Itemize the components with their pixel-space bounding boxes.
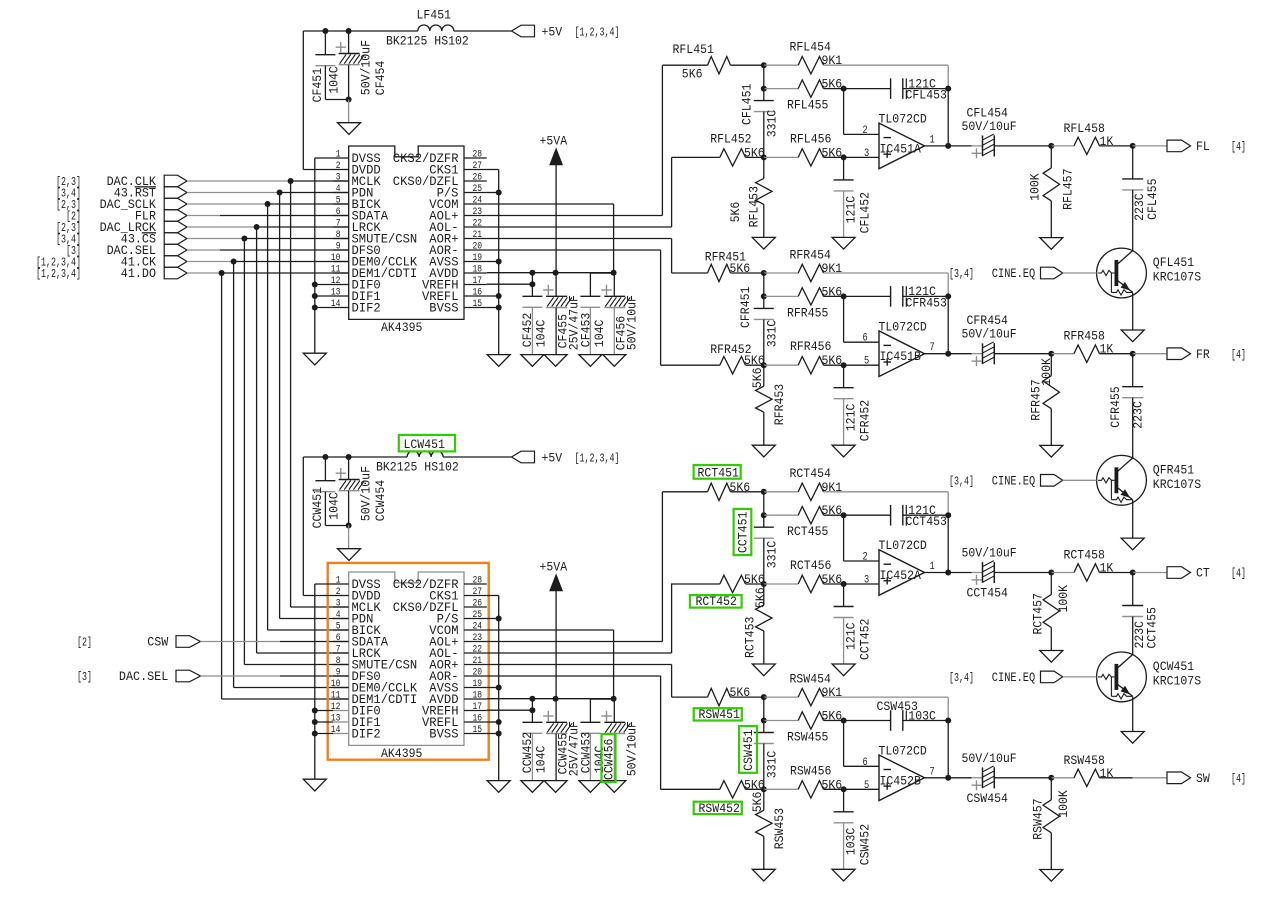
svg-text:BVSS: BVSS: [429, 728, 458, 742]
wire CF453 riser: [589, 273, 591, 296]
svg-text:19: 19: [473, 679, 483, 690]
ground RFR457: [1040, 445, 1063, 457]
ground AVSS bus: [487, 781, 510, 793]
wire DAC_LRCK: [187, 226, 257, 228]
wire: [764, 696, 798, 698]
resistor RSW455 5K6: [798, 712, 823, 729]
wire feedback to inverting input: [843, 89, 845, 135]
pin 19 stub IC bottom: [464, 687, 487, 689]
resistor RFL455 5K6: [798, 80, 823, 97]
svg-text:331C: 331C: [765, 541, 780, 569]
junction: [761, 786, 767, 792]
capacitor CFL453: [891, 78, 903, 99]
svg-text:5K6: 5K6: [730, 261, 751, 276]
resistor RFR454 9K1: [798, 264, 823, 281]
minus sign: [884, 563, 892, 565]
svg-text:CCT455: CCT455: [1145, 607, 1160, 648]
svg-text:24: 24: [473, 622, 483, 633]
resistor RCT455 5K6: [798, 507, 823, 524]
tick: [905, 286, 907, 295]
svg-text:5: 5: [336, 196, 341, 207]
ground RFL457: [1040, 238, 1063, 250]
svg-text:1K: 1K: [1100, 342, 1114, 357]
wire: [746, 364, 764, 366]
ground CCW455: [544, 781, 567, 793]
resistor RCT456 5K6: [798, 575, 823, 592]
wire: [1132, 190, 1134, 251]
junction: [761, 154, 767, 160]
svg-text:5: 5: [864, 356, 869, 368]
wire RFL451 row: [662, 64, 707, 66]
ground CCT452: [832, 664, 855, 676]
wire feedback vertical: [947, 296, 949, 353]
wire: [948, 572, 971, 574]
svg-text:331C: 331C: [765, 110, 780, 138]
capacitor CCT453: [891, 505, 903, 526]
wire pin 19 to bus: [487, 261, 499, 263]
junction pin 19: [496, 259, 502, 265]
green highlight LCW451: [399, 435, 455, 452]
wire pin 25 to bus: [487, 192, 499, 194]
svg-text:8: 8: [336, 230, 341, 241]
wire CF451 riser: [324, 31, 326, 55]
pin 27 stub IC top: [464, 169, 487, 171]
wire DAC_LRCK into pin: [257, 652, 349, 654]
junction: [761, 62, 767, 68]
resistor RFR456 5K6: [798, 357, 823, 374]
wire DIF2: [315, 733, 333, 735]
wire: [843, 157, 845, 180]
svg-text:RCT456: RCT456: [790, 558, 831, 573]
wire 41.CK bus drop: [233, 262, 235, 688]
pin 21 stub IC bottom: [464, 664, 487, 666]
connector DAC.SEL (lower): [176, 670, 201, 682]
wire AOL- bottom IC: [487, 652, 672, 654]
ground DVSS: [303, 779, 326, 791]
op-amp IC452B TL072CD: [879, 755, 925, 801]
pin 21 stub IC top: [464, 238, 487, 240]
wire: [763, 296, 765, 308]
junction pin 16: [496, 293, 502, 299]
wire: [763, 697, 765, 720]
wire corner down: [947, 65, 949, 88]
capacitor CFR453: [891, 286, 903, 307]
svg-text:22: 22: [473, 645, 483, 656]
svg-text:18: 18: [473, 265, 483, 276]
svg-text:20: 20: [473, 668, 483, 679]
svg-text:BVSS: BVSS: [429, 302, 458, 316]
junction: [1048, 775, 1054, 781]
wire: [824, 696, 949, 698]
wire 41.CK: [187, 261, 234, 263]
wire: [843, 823, 845, 870]
svg-text:5K6: 5K6: [822, 77, 843, 92]
pin 9 stub IC top: [333, 249, 349, 251]
svg-text:5K6: 5K6: [730, 480, 751, 495]
svg-text:50V/10uF: 50V/10uF: [962, 119, 1017, 134]
pin 5 stub IC top: [333, 203, 349, 205]
wire: [903, 720, 948, 722]
svg-text:CSW451: CSW451: [741, 729, 756, 771]
svg-text:6: 6: [863, 333, 868, 345]
svg-text:[2]: [2]: [77, 637, 92, 650]
svg-text:11: 11: [331, 691, 341, 702]
pin 6 stub IC bottom: [333, 641, 349, 643]
capacitor CCW454 50V/10uF electrolytic: [336, 468, 365, 491]
tick: [905, 516, 907, 525]
svg-text:41.DO: 41.DO: [121, 266, 156, 281]
svg-text:11: 11: [331, 265, 341, 276]
green highlight RSW451: [694, 708, 742, 720]
wire: [1050, 628, 1052, 651]
wire: [763, 89, 765, 101]
resistor RFL458 1K: [1074, 137, 1100, 154]
wire CCW452 riser: [531, 699, 533, 723]
junction: [841, 786, 847, 792]
svg-text:121C: 121C: [844, 403, 859, 431]
svg-text:1: 1: [336, 150, 341, 161]
wire to ground: [531, 733, 533, 780]
wire: [824, 88, 844, 90]
svg-text:RFR454: RFR454: [790, 247, 832, 262]
svg-text:15: 15: [473, 299, 483, 310]
junction: [841, 293, 847, 299]
pin 11 stub IC top: [333, 272, 349, 274]
wire 43.RST: [280, 192, 349, 194]
wire 43.RST: [187, 192, 280, 194]
wire: [764, 583, 798, 585]
transistor QFR451 KRC107S: [1097, 455, 1147, 505]
wire: [1132, 398, 1134, 458]
svg-text:CINE.EQ: CINE.EQ: [992, 474, 1036, 489]
svg-text:DIF2: DIF2: [352, 728, 381, 742]
pin 10 stub IC bottom: [333, 687, 349, 689]
wire +5VA to cap: [555, 273, 557, 297]
wire emitter to ground: [1132, 500, 1134, 538]
svg-text:14: 14: [331, 725, 341, 736]
junction: [346, 28, 352, 34]
svg-text:CF454: CF454: [373, 61, 388, 96]
wire to output: [1133, 145, 1167, 147]
svg-text:RFR456: RFR456: [790, 339, 831, 354]
wire: [824, 491, 949, 493]
wire DVSS: [315, 583, 333, 585]
wire: [824, 788, 844, 790]
svg-text:23: 23: [473, 633, 483, 644]
pin 3 stub IC bottom: [333, 606, 349, 608]
wire to output: [1133, 572, 1167, 574]
wire: [972, 353, 983, 355]
wire opamp output: [925, 777, 949, 779]
svg-text:RCT453: RCT453: [743, 617, 758, 658]
svg-text:TL072CD: TL072CD: [879, 319, 927, 334]
svg-text:5K6: 5K6: [730, 685, 751, 700]
resistor RSW452 5K6: [720, 781, 746, 798]
resistor RFL454 9K1: [798, 57, 823, 74]
svg-text:18: 18: [473, 691, 483, 702]
wire DAC.CLK bus drop: [290, 181, 292, 607]
green highlight RSW452: [694, 802, 742, 814]
svg-text:CCW456: CCW456: [602, 739, 617, 780]
svg-text:RSW454: RSW454: [790, 671, 832, 686]
wire 43.CS bus drop: [243, 239, 245, 665]
wire pin 16 to bus: [487, 295, 499, 297]
wire to ground: [589, 307, 591, 354]
svg-text:2: 2: [336, 587, 341, 598]
pin 24 stub IC bottom: [464, 629, 487, 631]
svg-text:12: 12: [331, 276, 341, 287]
capacitor CF453 104C: [580, 296, 600, 307]
capacitor CSW453: [891, 710, 903, 731]
pin 11 stub IC bottom: [333, 698, 349, 700]
svg-text:9K1: 9K1: [822, 685, 843, 700]
svg-text:RFR452: RFR452: [710, 342, 751, 357]
wire to output: [1133, 353, 1167, 355]
wire cap down: [324, 66, 326, 100]
wire DAC.SEL: [201, 675, 281, 677]
svg-text:SW: SW: [1196, 771, 1210, 786]
svg-text:RSW457: RSW457: [1031, 798, 1046, 839]
junction pin 25: [496, 190, 502, 196]
wire corner down: [947, 697, 949, 720]
junction 41.DO: [219, 270, 225, 276]
resistor RSW454 9K1: [798, 688, 823, 705]
overline: [142, 232, 156, 234]
wire: [1050, 201, 1052, 238]
pin 14 stub IC top: [333, 307, 349, 309]
wire: [824, 156, 844, 158]
wire VCOM riser: [613, 630, 615, 699]
wire: [994, 572, 1051, 574]
wire: [843, 584, 845, 607]
pin 28 stub IC top: [464, 157, 487, 159]
tick: [905, 711, 907, 721]
svg-text:IC452B: IC452B: [880, 773, 922, 788]
ground RFR453: [752, 445, 775, 457]
resistor RCT458 1K: [1074, 564, 1100, 581]
junction: [346, 523, 352, 529]
svg-text:CT: CT: [1196, 566, 1210, 581]
wire: [1050, 778, 1052, 800]
pin 12 stub IC top: [333, 284, 349, 286]
wire to ground: [348, 526, 350, 549]
wire: [1132, 573, 1134, 606]
wire: [843, 399, 845, 446]
junction DIF2: [312, 731, 318, 737]
junction AVDD/+5VA: [553, 270, 559, 276]
svg-text:104C: 104C: [592, 319, 607, 347]
ground CF452: [521, 355, 544, 367]
wire: [763, 836, 765, 869]
resistor RSW457 100K: [1043, 800, 1059, 833]
svg-text:RFR455: RFR455: [787, 305, 828, 320]
svg-text:[4]: [4]: [1231, 773, 1246, 786]
wire: [1100, 145, 1133, 147]
svg-text:5K6: 5K6: [822, 503, 843, 518]
svg-text:4: 4: [336, 610, 341, 621]
junction pin 19: [496, 685, 502, 691]
junction VCOM: [611, 270, 617, 276]
wire FLR: [187, 215, 220, 217]
capacitor CSW451 331C: [754, 733, 774, 744]
svg-text:1: 1: [930, 134, 936, 146]
wire: [763, 204, 765, 237]
transistor QCW451 KRC107S: [1097, 652, 1147, 702]
svg-text:6: 6: [863, 757, 868, 769]
svg-text:RFL452: RFL452: [710, 131, 751, 146]
svg-text:IC451B: IC451B: [880, 349, 922, 364]
wire feedback vertical: [947, 89, 949, 146]
svg-text:CCT454: CCT454: [967, 586, 1009, 601]
svg-text:[3,4]: [3,4]: [949, 476, 974, 489]
wire DAC.CLK: [291, 180, 349, 182]
svg-text:RSW451: RSW451: [699, 707, 741, 722]
pin 17 stub IC top: [464, 284, 487, 286]
resistor RCT451 5K6: [708, 483, 731, 500]
tick: [905, 505, 907, 514]
wire: [763, 631, 765, 664]
svg-text:[4]: [4]: [1231, 568, 1246, 581]
wire: [1100, 777, 1133, 779]
svg-text:+5V: +5V: [542, 25, 563, 40]
wire DAC.CLK: [187, 180, 291, 182]
svg-text:1: 1: [336, 576, 341, 587]
svg-text:104C: 104C: [534, 319, 549, 347]
svg-text:5K6: 5K6: [750, 368, 765, 389]
wire feedback vertical: [947, 515, 949, 572]
plus sign: [884, 785, 892, 787]
tick: [905, 90, 907, 99]
svg-text:22: 22: [473, 219, 483, 230]
plus sign: [884, 580, 892, 582]
power arrow +5VA: [550, 575, 562, 591]
svg-text:50V/10uF: 50V/10uF: [358, 466, 373, 521]
svg-text:24: 24: [473, 196, 483, 207]
capacitor CF451 104C: [315, 55, 335, 66]
wire: [746, 788, 764, 790]
svg-text:KRC107S: KRC107S: [1153, 270, 1201, 285]
resistor RSW456 5K6: [798, 781, 823, 798]
junction: [1048, 570, 1054, 576]
pin 15 stub IC top: [464, 307, 487, 309]
wire: [764, 156, 798, 158]
pin 7 stub IC top: [333, 226, 349, 228]
junction: [945, 512, 951, 518]
wire: [731, 272, 764, 274]
connector FR output: [1167, 348, 1191, 360]
capacitor CFL451 331C: [754, 101, 774, 112]
junction: [761, 362, 767, 368]
overline: [135, 186, 156, 188]
connector CINE.EQ QCW451: [1041, 671, 1063, 683]
wire +5V rail: [303, 30, 418, 32]
svg-text:CSW454: CSW454: [967, 791, 1009, 806]
wire AOL- top IC: [487, 226, 672, 228]
resistor RFL453 5K6: [756, 178, 772, 204]
svg-text:CFR453: CFR453: [906, 295, 947, 310]
wire VREFH: [487, 709, 533, 711]
ground: [338, 123, 361, 135]
resistor RFR458 1K: [1074, 345, 1100, 362]
pin 24 stub IC top: [464, 203, 487, 205]
wire +5VA to cap: [555, 699, 557, 723]
wire: [972, 572, 983, 574]
svg-text:KRC107S: KRC107S: [1153, 673, 1201, 688]
wire: [972, 777, 983, 779]
ground CF456: [603, 355, 626, 367]
svg-text:121C: 121C: [844, 196, 859, 224]
svg-text:13: 13: [331, 288, 341, 299]
svg-text:6: 6: [336, 207, 341, 218]
svg-text:QFL451: QFL451: [1153, 255, 1195, 270]
svg-text:KRC107S: KRC107S: [1153, 477, 1201, 492]
junction pin 15: [496, 731, 502, 737]
wire FLR: [220, 215, 349, 217]
junction: [1130, 143, 1136, 149]
ground RCT457: [1040, 651, 1063, 663]
svg-text:RFL458: RFL458: [1064, 121, 1105, 136]
junction: [761, 86, 767, 92]
svg-text:BK2125 HS102: BK2125 HS102: [376, 460, 459, 475]
svg-text:13: 13: [331, 714, 341, 725]
wire DVSS/DIF ground bus: [314, 584, 316, 779]
capacitor CCT451 331C: [754, 527, 774, 538]
svg-text:223C: 223C: [1131, 401, 1146, 429]
pin 12 stub IC bottom: [333, 710, 349, 712]
pin 5 stub IC bottom: [333, 629, 349, 631]
svg-text:6: 6: [336, 633, 341, 644]
resistor RFL452 5K6: [720, 149, 746, 166]
svg-text:50V/10uF: 50V/10uF: [358, 40, 373, 95]
pin 8 stub IC bottom: [333, 664, 349, 666]
svg-text:RSW456: RSW456: [790, 763, 831, 778]
connector CSW: [176, 636, 201, 648]
wire: [1100, 572, 1133, 574]
wire: [1050, 354, 1052, 376]
wire DVSS/DIF ground bus: [314, 158, 316, 353]
svg-text:3: 3: [336, 599, 341, 610]
svg-text:100K: 100K: [1028, 173, 1043, 201]
ground transistor emitter: [1121, 538, 1144, 550]
underline: [142, 232, 156, 234]
wire: [731, 696, 764, 698]
junction output: [945, 351, 951, 357]
svg-text:DAC.SEL: DAC.SEL: [119, 669, 168, 684]
wire DAC_LRCK: [257, 226, 349, 228]
pin 20 stub IC bottom: [464, 675, 487, 677]
svg-text:5K6: 5K6: [750, 792, 765, 813]
wire: [994, 777, 1051, 779]
wire 41.DO into pin: [222, 698, 349, 700]
svg-text:2: 2: [336, 161, 341, 172]
connector DAC.SEL: [164, 244, 187, 256]
ground CCW456: [603, 781, 626, 793]
pin 22 stub IC top: [464, 226, 487, 228]
junction DIF0: [312, 708, 318, 714]
wire 43.CS: [244, 238, 348, 240]
pin 16 stub IC bottom: [464, 721, 487, 723]
wire pin 15 to bus: [487, 307, 499, 309]
wire emitter to ground: [1132, 697, 1134, 732]
minus sign: [884, 769, 892, 771]
wire AOR- top IC: [487, 249, 661, 251]
pin 2 stub IC top: [333, 169, 349, 171]
plus sign: [884, 153, 892, 155]
pin 25 stub IC top: [464, 192, 487, 194]
wire 41.CK into pin: [234, 687, 349, 689]
wire emitter to ground: [1132, 293, 1134, 330]
wire 41.CK: [234, 261, 349, 263]
